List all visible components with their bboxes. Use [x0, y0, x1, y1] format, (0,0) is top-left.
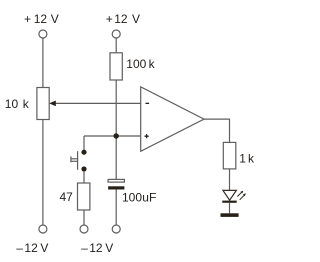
wire to R1 — [115, 38, 117, 53]
resistor R3 1k body — [223, 142, 236, 169]
svg-text:–: – — [81, 241, 88, 255]
svg-text:V: V — [132, 12, 140, 26]
LED light arrow 2 shaft — [240, 195, 245, 200]
junction node at noninverting input — [114, 133, 119, 138]
wire noninverting input line — [84, 135, 141, 137]
terminal +12V left — [39, 30, 47, 38]
svg-text:V: V — [51, 12, 59, 26]
svg-text:12: 12 — [34, 12, 48, 26]
pushbutton S1 stem upper — [71, 158, 78, 160]
svg-text:+: + — [24, 12, 31, 26]
LED light arrow 1 shaft — [237, 192, 241, 196]
svg-text:V: V — [105, 241, 113, 255]
LED light arrow 2 head — [243, 193, 246, 196]
svg-text:12: 12 — [89, 241, 103, 255]
svg-text:uF: uF — [142, 190, 156, 204]
svg-text:k: k — [23, 97, 30, 111]
terminal +12V middle — [112, 30, 120, 38]
svg-text:12: 12 — [114, 12, 128, 26]
svg-text:–: – — [16, 241, 23, 255]
pushbutton contact dot lower — [81, 166, 86, 171]
resistor R1 100k body — [110, 53, 122, 80]
wire R2 to terminal — [83, 210, 85, 225]
ground bar — [221, 213, 239, 217]
wiper arrowhead on P1 — [49, 101, 56, 107]
potentiometer P1 10k body — [37, 88, 49, 120]
LED cathode bar — [222, 201, 236, 203]
svg-text:V: V — [40, 241, 48, 255]
wire middle rail — [115, 80, 117, 179]
wire pushbutton branch corner — [83, 136, 85, 150]
pushbutton S1 stem lower — [71, 160, 78, 162]
svg-text:10: 10 — [5, 97, 19, 111]
svg-text:12: 12 — [24, 241, 38, 255]
wire C1 to terminal — [115, 190, 117, 225]
pushbutton contact dot upper — [81, 150, 86, 155]
terminal -12V under C1 — [112, 225, 120, 233]
pushbutton S1 cap — [70, 156, 72, 162]
terminal -12V under R2 — [80, 225, 88, 233]
LED D1 triangle — [223, 190, 237, 200]
op-amp minus sign — [146, 103, 150, 104]
wire R3 to LED — [229, 169, 231, 191]
svg-text:k: k — [149, 57, 156, 71]
capacitor C1 bottom plate — [108, 186, 124, 189]
svg-text:1: 1 — [239, 152, 246, 166]
wire left rail lower — [42, 120, 44, 225]
LED light arrow 1 head — [241, 191, 244, 194]
svg-text:100: 100 — [126, 57, 146, 71]
op-amp U1 body — [141, 87, 204, 151]
op-amp plus sign — [145, 134, 149, 138]
pushbutton S1 bridge — [77, 151, 79, 170]
svg-text:k: k — [248, 152, 255, 166]
resistor R2 47 body — [78, 183, 90, 210]
wire op-amp output — [204, 119, 230, 142]
capacitor C1 top plate — [108, 179, 124, 182]
wire between switch and R2 — [83, 172, 85, 183]
svg-text:+: + — [106, 12, 113, 26]
terminal -12V left — [39, 225, 47, 233]
svg-text:47: 47 — [60, 190, 74, 204]
wire LED to ground — [229, 203, 231, 214]
svg-text:100: 100 — [122, 190, 142, 204]
wire left rail upper — [42, 38, 44, 87]
wiper wire to inverting input — [55, 102, 141, 104]
